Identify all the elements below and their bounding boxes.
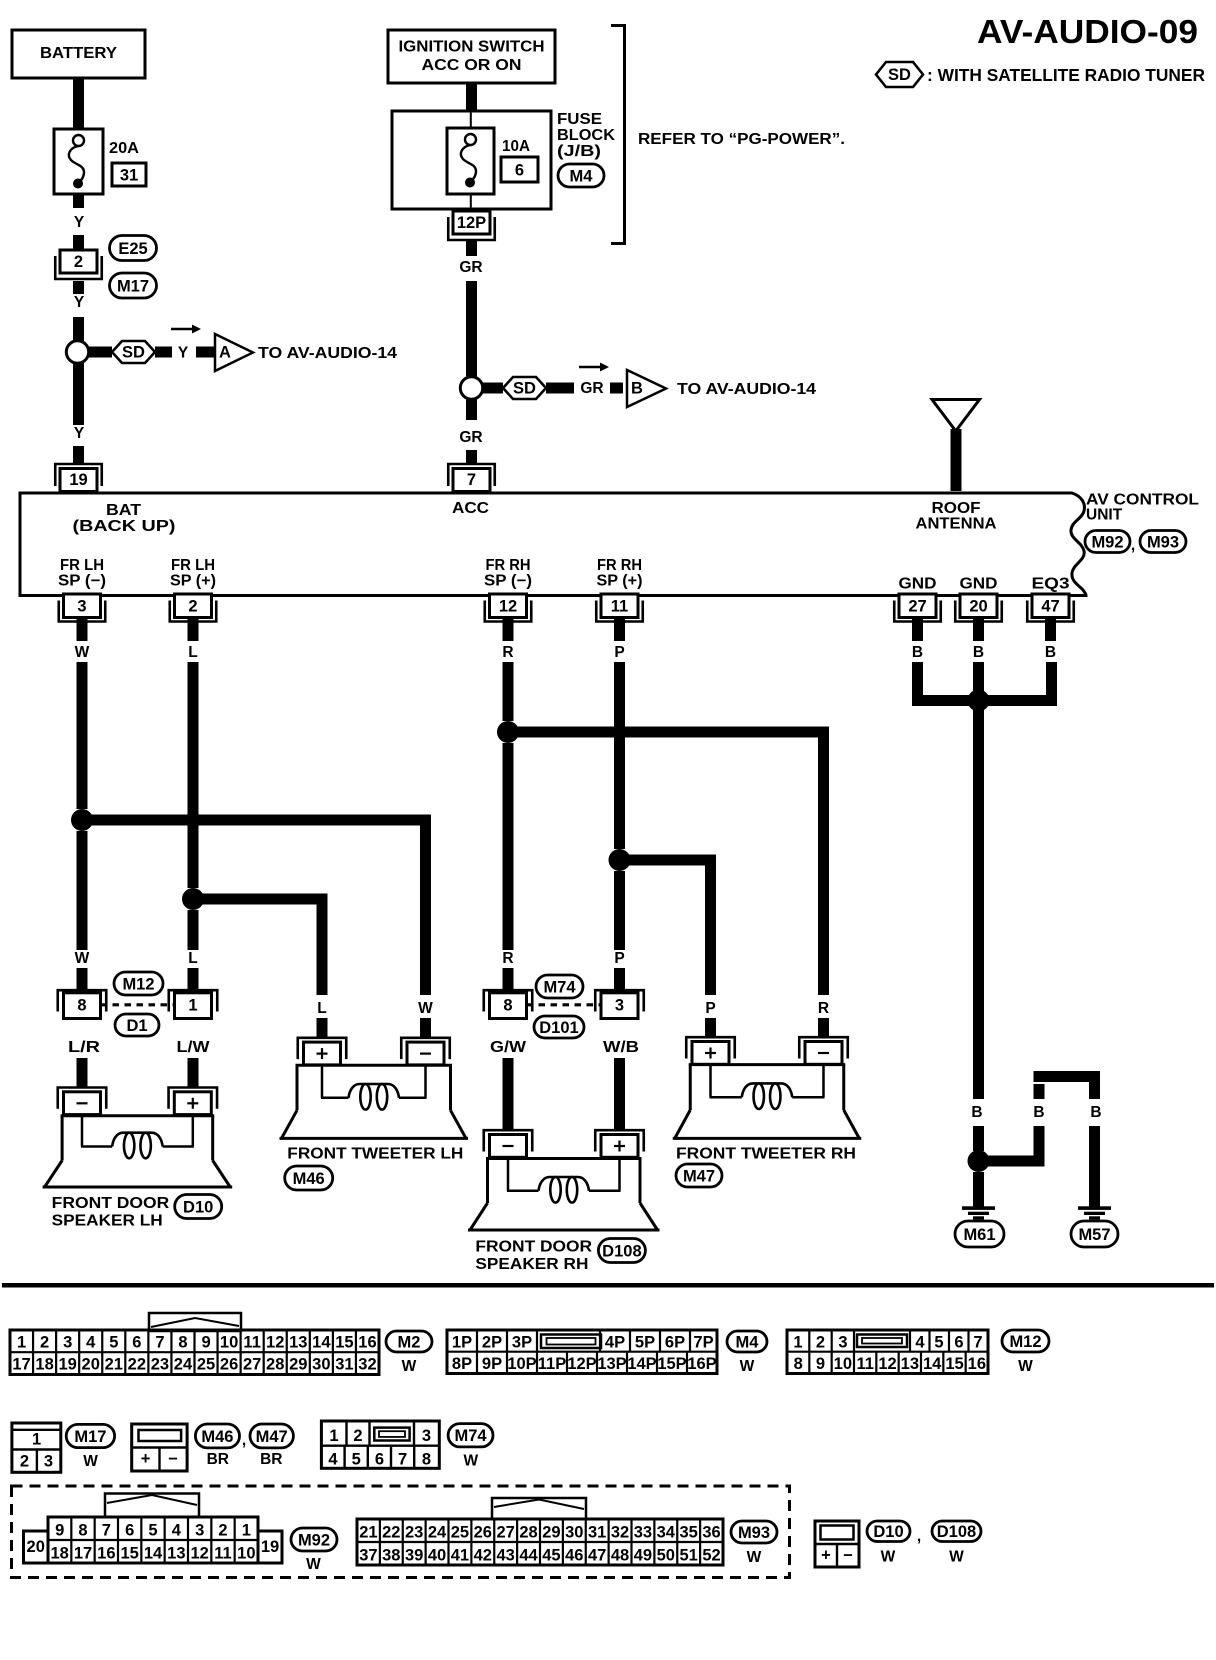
svg-text:14: 14: [923, 1355, 942, 1373]
svg-text:FRONT TWEETER RH: FRONT TWEETER RH: [676, 1146, 856, 1163]
svg-text:W: W: [402, 1358, 417, 1375]
svg-text:1: 1: [32, 1431, 41, 1449]
label BR M47: [260, 1451, 282, 1468]
connector pin 11: [596, 594, 643, 641]
svg-text:BLOCK: BLOCK: [557, 127, 615, 144]
AV control unit box: [20, 493, 1086, 596]
svg-text:18: 18: [50, 1545, 68, 1563]
svg-text:23: 23: [405, 1524, 423, 1542]
svg-text:3: 3: [63, 1334, 72, 1352]
svg-text:8: 8: [503, 997, 512, 1015]
svg-text:11: 11: [611, 598, 628, 616]
svg-text:W: W: [463, 1453, 478, 1470]
svg-text:Y: Y: [74, 214, 85, 231]
svg-text:14: 14: [312, 1334, 331, 1352]
oval M46: [285, 1166, 333, 1190]
svg-text:D108: D108: [937, 1523, 976, 1541]
label GND 27: [899, 576, 937, 593]
svg-text:6: 6: [515, 162, 524, 180]
svg-text:32: 32: [358, 1356, 376, 1374]
junction dot lower ground: [968, 1150, 990, 1172]
svg-text:9: 9: [55, 1522, 64, 1540]
svg-text:2: 2: [20, 1453, 29, 1471]
oval M17 table: [66, 1424, 114, 1447]
connector table D10/D108: [815, 1521, 859, 1567]
svg-text:2: 2: [40, 1334, 49, 1352]
svg-text:D10: D10: [873, 1523, 903, 1541]
oval M47 table: [250, 1424, 293, 1448]
svg-text:36: 36: [702, 1524, 720, 1542]
label AV CONTROL UNIT: [1086, 492, 1199, 524]
svg-text:GR: GR: [459, 259, 482, 276]
connector pin 20: [955, 594, 1002, 641]
svg-text:16P: 16P: [687, 1355, 716, 1373]
svg-text:2: 2: [74, 253, 83, 271]
svg-text:20: 20: [82, 1356, 100, 1374]
svg-text:M92: M92: [1091, 533, 1123, 551]
oval M92 table: [291, 1528, 337, 1551]
label GND 20: [960, 576, 998, 593]
svg-text:26: 26: [220, 1356, 238, 1374]
connector pin 1 M12/D1: [169, 990, 218, 1018]
oval M92: [1085, 531, 1130, 553]
junction dot grounds: [968, 690, 990, 712]
svg-text:9: 9: [816, 1355, 825, 1373]
terminal minus tweeter RH: [799, 1037, 848, 1064]
oval M74: [536, 975, 583, 998]
wire label W: [75, 644, 90, 661]
svg-text:TO AV-AUDIO-14: TO AV-AUDIO-14: [258, 345, 397, 362]
svg-text:8: 8: [77, 997, 86, 1015]
svg-text:20: 20: [969, 598, 987, 616]
svg-text:FUSE: FUSE: [557, 111, 602, 128]
ground merge bar: [912, 695, 1057, 706]
svg-text:UNIT: UNIT: [1086, 507, 1123, 524]
svg-text:+: +: [141, 1450, 151, 1468]
svg-text:M46: M46: [201, 1428, 233, 1446]
oval M17: [110, 273, 157, 298]
connector pin 7 ACC: [448, 464, 495, 492]
svg-text:REFER TO “PG-POWER”.: REFER TO “PG-POWER”.: [638, 131, 845, 148]
svg-text:20: 20: [27, 1538, 45, 1556]
svg-text:41: 41: [451, 1547, 469, 1565]
svg-text:1: 1: [17, 1334, 26, 1352]
label ROOF ANTENNA: [916, 500, 997, 533]
oval M74 table: [448, 1424, 493, 1447]
oval M46 table: [195, 1424, 239, 1448]
svg-text:22: 22: [382, 1524, 400, 1542]
right B leg to M57: [1089, 1082, 1102, 1207]
svg-text:44: 44: [519, 1547, 538, 1565]
label W M2: [402, 1358, 417, 1375]
connector pin 19 BAT: [55, 464, 102, 492]
svg-text:D10: D10: [183, 1198, 213, 1216]
svg-text:SPEAKER LH: SPEAKER LH: [52, 1213, 163, 1230]
svg-text:M74: M74: [454, 1427, 487, 1445]
svg-text:25: 25: [197, 1356, 215, 1374]
branch wire with SD to B: [482, 377, 623, 399]
junction dot P: [609, 849, 631, 871]
svg-text:8P: 8P: [452, 1355, 472, 1373]
oval E25: [110, 236, 157, 261]
svg-text:A: A: [219, 344, 231, 362]
svg-text:14P: 14P: [627, 1355, 656, 1373]
wire R column pin12: [502, 662, 513, 989]
svg-text:L: L: [317, 1000, 326, 1017]
wire label B 27: [912, 644, 923, 661]
wire B from pin20 main: [971, 662, 984, 1151]
svg-text:M92: M92: [298, 1531, 330, 1549]
comma M46 M47: [242, 1432, 246, 1449]
svg-text:B: B: [912, 644, 923, 661]
svg-text:11: 11: [214, 1545, 231, 1563]
roof antenna symbol: [932, 400, 980, 492]
svg-text:3: 3: [44, 1453, 53, 1471]
svg-text:M46: M46: [293, 1170, 325, 1188]
connector pin 8 M12/D1: [58, 990, 107, 1018]
svg-text:4: 4: [915, 1334, 925, 1352]
junction dot W: [71, 809, 93, 831]
svg-text:27: 27: [243, 1356, 261, 1374]
oval M4: [727, 1331, 767, 1352]
svg-text:B: B: [973, 644, 984, 661]
svg-text:12P: 12P: [457, 214, 486, 232]
svg-text:−: −: [168, 1450, 178, 1468]
svg-text:M4: M4: [570, 167, 594, 185]
svg-text:25: 25: [451, 1524, 469, 1542]
wire B from pin27: [912, 662, 923, 696]
svg-text:M12: M12: [122, 975, 154, 993]
triangle A TO AV-AUDIO-14: [215, 334, 397, 371]
svg-text:2: 2: [188, 598, 197, 616]
svg-text:M57: M57: [1078, 1226, 1110, 1244]
svg-text:13P: 13P: [597, 1355, 626, 1373]
arrow to A: [171, 325, 201, 334]
comma D10 D108: [917, 1528, 921, 1545]
svg-text:R: R: [818, 1000, 829, 1017]
svg-text:AV-AUDIO-09: AV-AUDIO-09: [977, 13, 1198, 50]
svg-text:15P: 15P: [657, 1355, 686, 1373]
svg-text:,: ,: [1131, 537, 1135, 554]
wire B from pin47: [1046, 662, 1057, 696]
svg-text:5P: 5P: [635, 1334, 655, 1352]
label W M93: [747, 1549, 762, 1566]
branch wire R to tweeter RH minus: [508, 727, 829, 1038]
terminal minus tweeter LH: [401, 1038, 450, 1065]
svg-text:+: +: [821, 1547, 831, 1565]
branch wire with SD to A: [88, 341, 215, 363]
svg-text:3: 3: [838, 1334, 847, 1352]
terminal plus tweeter RH: [686, 1037, 735, 1064]
svg-text:TO AV-AUDIO-14: TO AV-AUDIO-14: [677, 381, 816, 398]
svg-text:W: W: [949, 1549, 964, 1566]
svg-text:10A: 10A: [502, 138, 530, 155]
svg-text:11P: 11P: [538, 1355, 566, 1373]
svg-text:33: 33: [634, 1524, 652, 1542]
svg-text:13: 13: [167, 1545, 185, 1563]
svg-text:FRONT TWEETER LH: FRONT TWEETER LH: [287, 1146, 463, 1163]
svg-text:Y: Y: [74, 425, 85, 442]
svg-text:6: 6: [954, 1334, 963, 1352]
svg-text:2: 2: [353, 1427, 362, 1445]
svg-text:B: B: [1045, 644, 1056, 661]
svg-text:16: 16: [97, 1545, 115, 1563]
label FR RH SP(+): [597, 557, 643, 590]
label BAT BACK UP: [73, 502, 176, 535]
svg-text:31: 31: [120, 167, 138, 185]
svg-text:12: 12: [878, 1355, 896, 1373]
svg-text:FRONT DOOR: FRONT DOOR: [52, 1195, 170, 1212]
svg-text:47: 47: [588, 1547, 606, 1565]
svg-text:W/B: W/B: [603, 1039, 639, 1056]
svg-text:15: 15: [120, 1545, 138, 1563]
svg-text:,: ,: [917, 1528, 921, 1545]
wire L column pin2: [188, 662, 199, 989]
svg-text:29: 29: [289, 1356, 307, 1374]
svg-text:23: 23: [151, 1356, 169, 1374]
svg-text:3: 3: [422, 1427, 431, 1445]
svg-text:21: 21: [359, 1524, 377, 1542]
svg-text:8: 8: [794, 1355, 803, 1373]
junction dot R: [497, 721, 519, 743]
svg-text:17: 17: [12, 1356, 30, 1374]
svg-text:27: 27: [908, 598, 926, 616]
svg-text:52: 52: [702, 1547, 720, 1565]
svg-text:19: 19: [58, 1356, 76, 1374]
svg-text:,: ,: [242, 1432, 246, 1449]
wire label L/W: [177, 1039, 210, 1056]
svg-text:42: 42: [474, 1547, 492, 1565]
wire label R: [502, 644, 513, 661]
svg-text:28: 28: [266, 1356, 284, 1374]
triangle B TO AV-AUDIO-14: [627, 370, 816, 407]
svg-text:7: 7: [155, 1334, 164, 1352]
oval D10: [175, 1195, 222, 1219]
svg-text:D108: D108: [602, 1242, 641, 1260]
svg-text:51: 51: [680, 1547, 698, 1565]
svg-text:18: 18: [35, 1356, 53, 1374]
svg-text:6: 6: [132, 1334, 141, 1352]
wire label L: [188, 644, 197, 661]
svg-text:M47: M47: [256, 1428, 288, 1446]
svg-text:8: 8: [422, 1451, 431, 1469]
battery box: [12, 30, 145, 78]
svg-text:16: 16: [358, 1334, 376, 1352]
svg-text:38: 38: [382, 1547, 400, 1565]
svg-text:46: 46: [565, 1547, 583, 1565]
svg-text:49: 49: [634, 1547, 652, 1565]
svg-text:L/R: L/R: [68, 1039, 100, 1056]
front door speaker RH body: [468, 1159, 660, 1231]
wire W column pin3: [75, 662, 90, 989]
svg-text:11: 11: [243, 1334, 260, 1352]
wire label W/B: [603, 1039, 639, 1056]
svg-text:M47: M47: [683, 1167, 715, 1185]
svg-text:SP (−): SP (−): [58, 573, 106, 590]
svg-text:ANTENNA: ANTENNA: [916, 516, 997, 533]
connector table M2: [10, 1330, 379, 1375]
svg-text:B: B: [971, 1104, 982, 1121]
connector pin 3 M74/D101: [595, 990, 644, 1018]
svg-text:3: 3: [195, 1522, 204, 1540]
connector M2 key tab: [149, 1313, 241, 1331]
svg-text:R: R: [502, 950, 513, 967]
svg-text:1: 1: [329, 1427, 338, 1445]
svg-text:W: W: [75, 644, 90, 661]
svg-text:M74: M74: [543, 978, 576, 996]
svg-text:4: 4: [172, 1522, 182, 1540]
oval M93: [1140, 531, 1186, 553]
connector table M12: [787, 1330, 988, 1374]
svg-text:D101: D101: [539, 1019, 578, 1037]
svg-text:7: 7: [398, 1451, 407, 1469]
svg-text:27: 27: [497, 1524, 515, 1542]
svg-text:7: 7: [102, 1522, 111, 1540]
connector 12P: [448, 211, 495, 240]
svg-text:(BACK UP): (BACK UP): [73, 518, 176, 535]
terminal plus speaker RH: [595, 1130, 644, 1157]
section divider line: [2, 1283, 1214, 1288]
svg-text:10: 10: [220, 1334, 238, 1352]
svg-text:3: 3: [615, 997, 624, 1015]
svg-text:1: 1: [188, 997, 197, 1015]
junction circle battery branch: [66, 341, 88, 363]
svg-text:4P: 4P: [605, 1334, 625, 1352]
svg-text:19: 19: [261, 1538, 279, 1556]
dashed link M74/D101: [527, 1003, 602, 1006]
connector table M46/M47: [132, 1424, 187, 1471]
svg-text:34: 34: [657, 1524, 676, 1542]
svg-text:M2: M2: [398, 1333, 421, 1351]
svg-text:W: W: [306, 1556, 321, 1573]
label FRONT TWEETER LH: [287, 1146, 463, 1163]
svg-text:E25: E25: [118, 240, 147, 258]
svg-text:SP (+): SP (+): [597, 573, 643, 590]
oval M12: [1002, 1330, 1049, 1352]
svg-text:W: W: [740, 1358, 755, 1375]
svg-text:M61: M61: [963, 1226, 995, 1244]
lower ground link bar: [979, 1156, 1045, 1167]
oval M57: [1071, 1221, 1118, 1247]
svg-text:4: 4: [328, 1451, 338, 1469]
svg-text:SP (−): SP (−): [484, 573, 532, 590]
svg-text:7: 7: [467, 471, 476, 489]
oval D10 table: [867, 1521, 910, 1542]
label FRONT DOOR SPEAKER RH: [475, 1239, 592, 1274]
svg-text:5: 5: [148, 1522, 157, 1540]
svg-text:−: −: [843, 1547, 853, 1565]
label W D108: [949, 1549, 964, 1566]
svg-text:40: 40: [428, 1547, 446, 1565]
svg-text:SD: SD: [122, 344, 145, 362]
wire G/W to speaker RH: [503, 1058, 514, 1129]
svg-text:1P: 1P: [452, 1334, 472, 1352]
svg-text:GND: GND: [960, 576, 998, 593]
svg-text:26: 26: [474, 1524, 492, 1542]
svg-text:M12: M12: [1009, 1333, 1041, 1351]
svg-text:2: 2: [218, 1522, 227, 1540]
svg-text:FRONT DOOR: FRONT DOOR: [475, 1239, 592, 1256]
svg-text:31: 31: [335, 1356, 353, 1374]
svg-text:Y: Y: [178, 345, 189, 362]
svg-text:P: P: [705, 1000, 715, 1017]
svg-text:31: 31: [588, 1524, 606, 1542]
connector table M4: [447, 1330, 717, 1374]
svg-text:13: 13: [901, 1355, 919, 1373]
oval D1: [115, 1014, 159, 1036]
svg-text:20A: 20A: [109, 140, 139, 157]
svg-text:(J/B): (J/B): [557, 143, 601, 160]
wire label G/W: [490, 1039, 526, 1056]
connector pin 8 M74/D101: [484, 990, 533, 1018]
svg-text:BATTERY: BATTERY: [40, 45, 117, 62]
wire GR to connector 7: [459, 399, 482, 463]
connector table M92: [24, 1517, 283, 1563]
connector pin 12: [485, 594, 532, 641]
svg-text:EQ3: EQ3: [1032, 576, 1070, 593]
svg-text:10P: 10P: [507, 1355, 536, 1373]
label FR LH SP(+): [170, 557, 216, 590]
svg-text:B: B: [631, 380, 643, 398]
svg-text:8: 8: [178, 1334, 187, 1352]
branch wire L to tweeter LH plus: [193, 894, 328, 1038]
svg-text:15: 15: [335, 1334, 353, 1352]
terminal minus speaker RH: [484, 1130, 533, 1157]
dashed link M12/D1: [101, 1003, 175, 1006]
upper link bar M57: [1034, 1071, 1101, 1082]
svg-text:37: 37: [359, 1547, 377, 1565]
svg-text:M17: M17: [74, 1428, 106, 1446]
label FRONT DOOR SPEAKER LH: [52, 1195, 170, 1230]
svg-text:6: 6: [375, 1451, 384, 1469]
connector pin 2: [170, 594, 217, 641]
comma between M92 M93: [1131, 537, 1135, 554]
svg-text:BR: BR: [260, 1451, 282, 1468]
svg-text:M17: M17: [117, 277, 149, 295]
svg-text:W: W: [881, 1549, 896, 1566]
connector M92 key tab: [105, 1494, 199, 1518]
wire Y to connector 19: [73, 363, 85, 463]
svg-text:24: 24: [428, 1524, 447, 1542]
junction circle ACC branch: [460, 377, 482, 399]
svg-text:8: 8: [78, 1522, 87, 1540]
middle B leg: [1033, 1084, 1044, 1167]
label ACC: [452, 500, 489, 517]
terminal plus tweeter LH: [298, 1038, 347, 1065]
connector M93 key tab: [492, 1498, 586, 1519]
svg-text:5: 5: [934, 1334, 943, 1352]
label FRONT TWEETER RH: [676, 1146, 856, 1163]
svg-text:SD: SD: [888, 66, 911, 84]
svg-text:15: 15: [945, 1355, 963, 1373]
svg-text:47: 47: [1041, 598, 1059, 616]
fuse block J/B box: [392, 111, 551, 209]
svg-text:W: W: [418, 1000, 433, 1017]
wire GR below 12P: [459, 241, 482, 377]
ground symbol M57: [1078, 1206, 1111, 1219]
svg-text:11: 11: [856, 1355, 873, 1373]
svg-text:B: B: [1090, 1104, 1101, 1121]
svg-text:B: B: [1033, 1104, 1044, 1121]
svg-text:W: W: [75, 950, 90, 967]
svg-text:BAT: BAT: [106, 502, 142, 519]
svg-text:L: L: [188, 644, 197, 661]
wire to ground M61: [973, 1172, 984, 1207]
svg-text:17: 17: [74, 1545, 92, 1563]
svg-text:10: 10: [237, 1545, 255, 1563]
front tweeter RH body: [673, 1065, 862, 1139]
connector pin 27: [894, 594, 941, 641]
